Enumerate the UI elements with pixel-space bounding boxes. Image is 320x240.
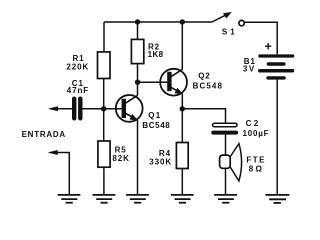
svg-text:330K: 330K — [149, 158, 172, 167]
svg-text:82K: 82K — [112, 154, 129, 163]
svg-text:C2: C2 — [246, 119, 261, 128]
svg-text:+: + — [265, 39, 273, 53]
svg-text:Q1: Q1 — [148, 111, 161, 120]
svg-text:S 1: S 1 — [222, 28, 235, 37]
svg-text:R5: R5 — [115, 146, 127, 155]
svg-text:3V: 3V — [243, 65, 256, 74]
svg-text:ENTRADA: ENTRADA — [22, 130, 66, 139]
svg-text:FTE: FTE — [246, 155, 266, 164]
svg-text:BC548: BC548 — [193, 81, 223, 90]
svg-text:8Ω: 8Ω — [249, 164, 264, 173]
svg-text:1K8: 1K8 — [148, 50, 164, 59]
svg-text:100µF: 100µF — [243, 129, 270, 138]
svg-text:220K: 220K — [66, 62, 89, 71]
svg-text:R4: R4 — [159, 149, 171, 158]
svg-text:Q2: Q2 — [198, 71, 210, 80]
svg-text:BC548: BC548 — [142, 121, 170, 130]
svg-text:47nF: 47nF — [67, 86, 89, 95]
